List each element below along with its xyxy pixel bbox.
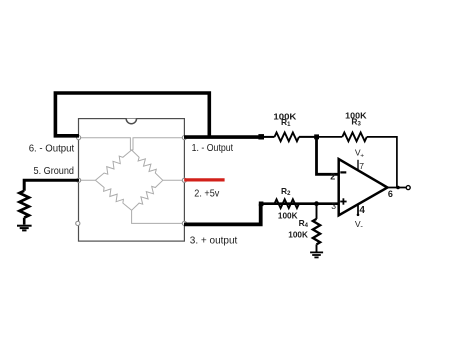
svg-text:1. - Output: 1. - Output [192,143,234,154]
svg-text:6: 6 [388,189,393,199]
svg-text:4: 4 [359,205,365,216]
svg-text:6. - Output: 6. - Output [29,143,75,154]
svg-text:7: 7 [359,161,364,171]
svg-text:100K: 100K [288,230,308,240]
svg-text:+: + [360,153,364,160]
svg-text:5. Ground: 5. Ground [34,166,75,177]
svg-text:2: 2 [330,171,335,181]
svg-text:3. + output: 3. + output [190,235,238,246]
svg-text:3: 3 [331,201,336,211]
svg-text:2. +5v: 2. +5v [194,189,220,200]
svg-text:100K: 100K [278,210,298,220]
